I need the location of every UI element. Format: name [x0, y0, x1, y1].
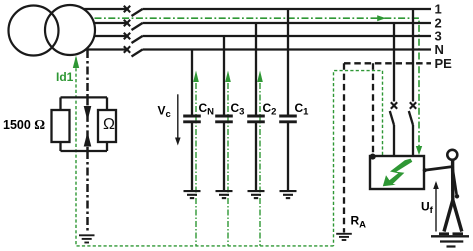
svg-text:1: 1: [435, 2, 442, 17]
svg-text:N: N: [435, 42, 444, 57]
svg-text:PE: PE: [435, 56, 453, 71]
svg-text:Vc: Vc: [158, 104, 171, 121]
svg-text:Id1: Id1: [56, 70, 74, 84]
svg-text:1500 Ω: 1500 Ω: [3, 117, 45, 132]
svg-text:CN: CN: [199, 101, 215, 118]
svg-text:RA: RA: [351, 214, 367, 231]
svg-text:Uf: Uf: [421, 200, 434, 217]
svg-text:Ω: Ω: [103, 116, 115, 133]
